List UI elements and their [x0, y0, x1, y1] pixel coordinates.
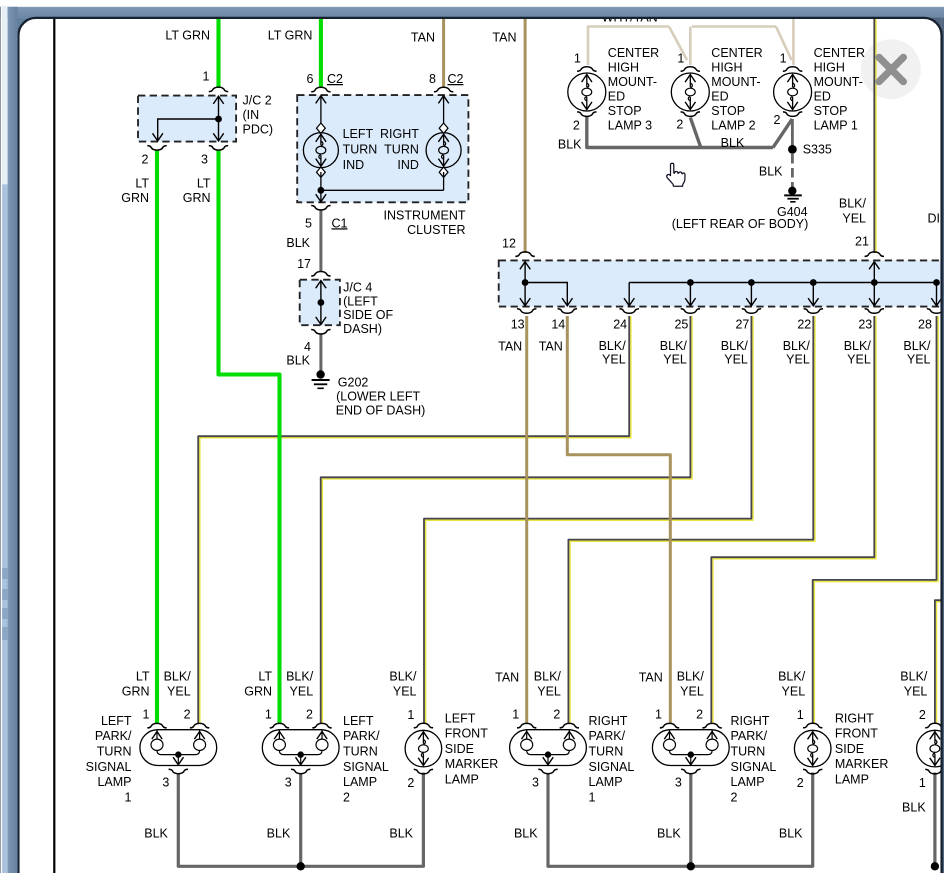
- svg-text:3: 3: [532, 776, 539, 790]
- svg-text:BLK: BLK: [779, 826, 803, 840]
- svg-text:21: 21: [855, 235, 869, 249]
- wire BLK from stop lamp 1 pin 2 to splice S335: [791, 119, 794, 149]
- svg-text:2: 2: [142, 153, 149, 167]
- wire WHT/TAN distribution to stop lamp 3: [588, 27, 669, 66]
- label G202 (LOWER LEFT END OF DASH): [336, 375, 426, 417]
- wire LT GRN from J/C 2 pin 3 down to left park/turn signal lamp 2 pin 1: [219, 151, 280, 725]
- svg-text:2: 2: [731, 790, 738, 804]
- label G404 (LEFT REAR OF BODY): [672, 205, 809, 231]
- svg-text:YEL: YEL: [393, 684, 417, 698]
- close button background circle: [861, 39, 921, 99]
- svg-text:BLK/: BLK/: [721, 339, 749, 353]
- J/C 4 pin 4 connector arc: [311, 330, 330, 335]
- J/C 2 internal branch to pin 2: [153, 119, 219, 141]
- svg-text:3: 3: [285, 776, 292, 790]
- svg-text:LAMP: LAMP: [589, 775, 623, 789]
- lamp: left park/turn signal lamp 1 body: [140, 730, 217, 766]
- lamp: far right lamp body: [917, 730, 944, 767]
- svg-text:LAMP 2: LAMP 2: [711, 119, 755, 133]
- labels of center high mounted stop lamp 1: [774, 46, 865, 133]
- svg-text:2: 2: [797, 776, 804, 790]
- svg-text:BLK/: BLK/: [660, 339, 688, 353]
- svg-text:BLK/: BLK/: [839, 197, 867, 211]
- app chrome: scrollbar white gutter: [1, 7, 2, 873]
- label wire color above lamp pin at x=424: [389, 669, 417, 698]
- connector internal line pin 21 down: [869, 262, 879, 306]
- label wire color above lamp pin at x=568.4: [534, 669, 562, 698]
- svg-text:2: 2: [184, 708, 191, 722]
- svg-text:BLK/: BLK/: [389, 669, 417, 683]
- junction dot left BLK bus: [297, 862, 305, 870]
- lamp: center high mounted stop lamp 2: [671, 73, 709, 111]
- svg-text:2: 2: [553, 708, 560, 722]
- svg-text:YEL: YEL: [904, 684, 928, 698]
- instrument cluster internal bus to pin 5: [316, 190, 444, 202]
- close button X icon: [879, 57, 903, 81]
- labels of center high mounted stop lamp 3: [573, 46, 659, 133]
- right park/turn signal lamp 2 pin 1 arc: [660, 723, 679, 728]
- mouse cursor: [667, 163, 685, 186]
- svg-text:YEL: YEL: [907, 352, 931, 366]
- svg-text:LEFT: LEFT: [445, 711, 476, 725]
- label LT GRN below J/C 2 pin 2: [121, 177, 149, 206]
- svg-text:2: 2: [573, 119, 580, 133]
- label pin 25 and wire color: [660, 318, 689, 367]
- label wire color above lamp pin at x=198.2: [164, 669, 192, 698]
- svg-text:SIGNAL: SIGNAL: [343, 760, 389, 774]
- left park/turn signal lamp 1 pin 3 arc: [169, 769, 188, 774]
- svg-text:IND: IND: [397, 158, 419, 172]
- svg-text:8: 8: [429, 72, 436, 86]
- lamp: left park/turn signal lamp 2 body: [262, 730, 339, 766]
- right park/turn signal lamp 2 internal filaments: [664, 730, 719, 765]
- svg-text:GRN: GRN: [183, 191, 211, 205]
- svg-text:PARK/: PARK/: [731, 729, 768, 743]
- connector internal distribution bus: [624, 283, 942, 306]
- svg-text:HIGH: HIGH: [608, 61, 639, 75]
- svg-text:YEL: YEL: [847, 352, 871, 366]
- wire WHT/TAN run to stop lamp 1: [692, 25, 776, 28]
- label J/C 4 (LEFT SIDE OF DASH): [343, 281, 393, 336]
- right front side marker lamp pin arcs: [803, 723, 822, 728]
- app chrome: right backdrop column: [942, 17, 944, 873]
- wire WHT/TAN from top to center high mounted stop lamp 1 pin 1: [792, 19, 795, 66]
- svg-text:TAN: TAN: [492, 31, 516, 45]
- svg-text:CENTER: CENTER: [711, 46, 762, 60]
- label wire color above lamp pin at x=279.5: [244, 669, 272, 698]
- app chrome: scrollbar dark left edge: [0, 7, 2, 873]
- svg-text:ED: ED: [711, 90, 728, 104]
- svg-text:24: 24: [613, 318, 627, 332]
- connector pin 12 connector arc: [515, 252, 534, 257]
- svg-text:MOUNT-: MOUNT-: [608, 75, 657, 89]
- svg-text:FRONT: FRONT: [445, 727, 488, 741]
- lamp: right park/turn signal lamp 1 body: [510, 730, 587, 766]
- svg-text:C1: C1: [332, 216, 348, 230]
- wire BLK diagonal from stop lamp 2 pin 2: [690, 118, 701, 148]
- app chrome: top white strip: [0, 0, 944, 7]
- svg-text:BLK/: BLK/: [534, 669, 562, 683]
- junction connector J/C 2 box (in PDC): [138, 96, 236, 142]
- svg-text:STOP: STOP: [711, 104, 745, 118]
- label J/C 2 (IN PDC): [243, 94, 274, 137]
- wire WHT/TAN stub at stop lamp 2: [689, 27, 692, 66]
- svg-text:C2: C2: [327, 72, 343, 86]
- stop lamp 2 pin 1 connector arc: [681, 67, 700, 72]
- svg-text:LAMP: LAMP: [343, 775, 377, 789]
- left park/turn signal lamp 1 pin 1 arc: [147, 723, 166, 728]
- svg-text:28: 28: [918, 318, 932, 332]
- svg-text:3: 3: [675, 776, 682, 790]
- instrument cluster pin 8 connector arc: [434, 87, 453, 92]
- svg-text:1: 1: [407, 708, 414, 722]
- svg-text:TAN: TAN: [639, 670, 663, 684]
- svg-text:SIDE OF: SIDE OF: [343, 308, 393, 322]
- wire LT GRN from J/C 2 pin 2 down to left park/turn signal lamp 1 pin 1: [155, 151, 159, 725]
- wire TAN connector pin 13 to right park/turn signal lamp 1 pin 1: [525, 316, 528, 724]
- left front side marker lamp name label: [445, 711, 498, 786]
- right front side marker lamp name label: [835, 711, 888, 786]
- svg-text:LAMP: LAMP: [445, 773, 479, 787]
- label RIGHT TURN IND: [380, 127, 419, 172]
- svg-text:YEL: YEL: [290, 684, 314, 698]
- svg-text:TURN: TURN: [589, 745, 624, 759]
- diagram left frame border line: [53, 19, 55, 874]
- right park/turn signal lamp 2 pin 2 arc: [702, 723, 721, 728]
- svg-text:5: 5: [305, 216, 312, 230]
- svg-text:4: 4: [304, 340, 311, 354]
- lamp: right park/turn signal lamp 2 body: [652, 730, 729, 766]
- right front side marker lamp pin number labels: [797, 708, 804, 790]
- label pin 23 and wire color: [844, 318, 873, 367]
- svg-text:ED: ED: [608, 90, 625, 104]
- wire TAN from top to connector pin 12: [524, 19, 527, 254]
- svg-text:CENTER: CENTER: [608, 46, 659, 60]
- svg-text:PDC): PDC): [243, 123, 274, 137]
- label wire color above lamp pin at x=157: [122, 669, 150, 698]
- svg-text:BLK/: BLK/: [903, 339, 931, 353]
- svg-text:MOUNT-: MOUNT-: [711, 75, 760, 89]
- stop lamp 1 pin 2 connector arc: [783, 112, 802, 117]
- stop lamp 3 pin 1 connector arc: [577, 67, 596, 72]
- svg-text:G202: G202: [338, 375, 369, 389]
- label INSTRUMENT CLUSTER: [384, 209, 466, 237]
- app chrome: top-left corner wedge: [17, 17, 36, 35]
- svg-text:IND: IND: [343, 158, 365, 172]
- svg-text:BLK/: BLK/: [286, 669, 314, 683]
- junction dot far right BLK wire: [931, 862, 939, 870]
- label wire color above lamp pin at x=812.7: [778, 669, 806, 698]
- svg-text:LT: LT: [136, 669, 150, 683]
- svg-text:TAN: TAN: [539, 340, 563, 354]
- connector internal line pin 12 to pin 13: [520, 262, 530, 306]
- svg-text:TURN: TURN: [97, 745, 132, 759]
- label pin 22 and wire color: [783, 318, 812, 367]
- label pin 6 and C2: [307, 72, 343, 86]
- connector internal branch to pin 14: [525, 283, 572, 306]
- svg-text:BLK/: BLK/: [844, 339, 872, 353]
- splice S335: [788, 145, 797, 154]
- label pin 8 and C2: [429, 72, 463, 86]
- svg-text:SIGNAL: SIGNAL: [731, 760, 777, 774]
- right park/turn signal lamp 1 internal filaments: [521, 730, 576, 765]
- svg-text:LEFT: LEFT: [343, 714, 374, 728]
- svg-text:1: 1: [655, 708, 662, 722]
- svg-text:STOP: STOP: [814, 104, 848, 118]
- label LEFT TURN IND: [343, 127, 378, 172]
- wire BLK/YEL from top to connector pin 21: [875, 19, 877, 254]
- svg-text:3: 3: [162, 776, 169, 790]
- wire BLK/YEL connector pin 28 to right front side marker lamp pin 1: [814, 316, 938, 724]
- svg-text:2: 2: [696, 708, 703, 722]
- svg-text:1: 1: [780, 52, 787, 66]
- svg-text:BLK: BLK: [267, 826, 291, 840]
- label pin 28 and wire color: [903, 318, 932, 367]
- svg-text:RIGHT: RIGHT: [835, 711, 874, 725]
- svg-text:LEFT: LEFT: [343, 127, 374, 141]
- app chrome: scrollbar light band top highlight: [2, 7, 8, 185]
- ground G404 symbol: [784, 187, 802, 202]
- wire WHT/TAN diagonal into stop lamp 1 pin 1: [776, 27, 792, 61]
- svg-text:BLK/: BLK/: [599, 339, 627, 353]
- label pin 27 and wire color: [721, 318, 750, 367]
- app chrome: scrollbar light band: [2, 7, 8, 873]
- svg-text:25: 25: [674, 318, 688, 332]
- right park/turn signal lamp 1 pin 1 arc: [517, 723, 536, 728]
- wire BLK bus of center stop lamps: [587, 116, 773, 148]
- svg-text:DASH): DASH): [343, 322, 382, 336]
- svg-text:LT GRN: LT GRN: [165, 29, 210, 43]
- wire BLK from left park/turn signal lamp 2 pin 3: [299, 774, 302, 866]
- left turn indicator lamp: [303, 96, 338, 191]
- left park/turn signal lamp 2 pin 2 arc: [312, 723, 331, 728]
- svg-text:2: 2: [919, 708, 926, 722]
- left park/turn signal lamp 1 pin number labels: [143, 708, 191, 790]
- svg-text:YEL: YEL: [680, 684, 704, 698]
- stop lamp 3 pin 2 connector arc: [577, 112, 596, 117]
- svg-text:(IN: (IN: [243, 108, 260, 122]
- svg-text:(LEFT: (LEFT: [343, 294, 378, 308]
- svg-text:LAMP 1: LAMP 1: [814, 119, 858, 133]
- lamp: center high mounted stop lamp 1: [774, 73, 812, 111]
- svg-text:YEL: YEL: [663, 352, 687, 366]
- label pin 5 and C1: [305, 216, 347, 230]
- stop lamp 2 pin 2 connector arc: [681, 112, 700, 117]
- label pin 24 and wire color: [599, 318, 628, 367]
- wire BLK/YEL connector pin 25 to left park/turn signal lamp 2 pin 2: [322, 316, 692, 724]
- svg-text:S335: S335: [803, 143, 832, 157]
- svg-text:2: 2: [676, 118, 683, 132]
- svg-text:YEL: YEL: [724, 352, 748, 366]
- svg-text:ED: ED: [814, 90, 831, 104]
- app chrome: top-right corner wedge: [924, 17, 942, 35]
- svg-text:END OF DASH): END OF DASH): [336, 404, 426, 418]
- svg-text:BLK: BLK: [286, 236, 310, 250]
- left park/turn signal lamp 2 pin 1 arc: [270, 723, 289, 728]
- wire BLK/YEL from right edge to far right lamp pin 2: [937, 602, 942, 724]
- connector bus junction dots: [687, 279, 940, 286]
- svg-text:LEFT: LEFT: [101, 714, 132, 728]
- svg-text:BLK: BLK: [286, 354, 310, 368]
- svg-text:BLK: BLK: [514, 826, 538, 840]
- svg-text:TAN: TAN: [498, 340, 522, 354]
- wire BLK from J/C 4 pin 4 to ground G202: [319, 335, 322, 372]
- svg-text:LAMP: LAMP: [835, 773, 869, 787]
- app chrome: scrollbar grip smudges: [2, 568, 8, 640]
- J/C 2 internal junction dot: [215, 116, 222, 123]
- svg-text:STOP: STOP: [608, 104, 642, 118]
- wire BLK ground bus of right lamps: [548, 773, 813, 867]
- svg-text:SIGNAL: SIGNAL: [589, 760, 635, 774]
- svg-text:GRN: GRN: [121, 191, 149, 205]
- svg-text:INSTRUMENT: INSTRUMENT: [384, 209, 466, 223]
- wire BLK/YEL connector pin 23 to right park/turn signal lamp 2 pin 2: [713, 316, 876, 724]
- svg-text:J/C 4: J/C 4: [343, 281, 372, 295]
- wire WHT/TAN diagonal into stop lamp 2 pin 1: [669, 27, 687, 61]
- svg-text:LT: LT: [258, 669, 272, 683]
- svg-text:1: 1: [677, 52, 684, 66]
- J/C 4 pin 17 connector arc: [311, 272, 330, 277]
- label wire color above lamp pin at x=934.9: [900, 669, 928, 698]
- svg-text:RIGHT: RIGHT: [731, 714, 770, 728]
- svg-text:BLK/: BLK/: [900, 669, 928, 683]
- svg-text:BLK: BLK: [558, 138, 582, 152]
- svg-text:LAMP 3: LAMP 3: [608, 119, 652, 133]
- svg-text:(LOWER LEFT: (LOWER LEFT: [336, 389, 420, 403]
- labels of center high mounted stop lamp 2: [676, 46, 762, 133]
- svg-text:PARK/: PARK/: [589, 729, 626, 743]
- label pin 14 and wire color: [539, 318, 566, 354]
- left front side marker lamp pin number labels: [407, 708, 414, 790]
- J/C 2 pin 3 connector arc: [209, 146, 228, 151]
- svg-text:BLK/: BLK/: [164, 669, 192, 683]
- svg-text:BLK: BLK: [657, 826, 681, 840]
- J/C 2 pin 1 connector arc: [209, 87, 228, 92]
- wire BLK from right park/turn signal lamp 2 pin 3: [689, 774, 692, 866]
- wire TAN connector pin 14 to right park/turn signal lamp 2 pin 1: [567, 316, 670, 724]
- svg-text:1: 1: [265, 708, 272, 722]
- svg-text:GRN: GRN: [244, 684, 272, 698]
- svg-text:J/C 2: J/C 2: [243, 94, 272, 108]
- svg-text:2: 2: [306, 708, 313, 722]
- svg-text:YEL: YEL: [782, 684, 806, 698]
- svg-text:TAN: TAN: [411, 31, 435, 45]
- right park/turn signal lamp 1 pin 3 arc: [538, 769, 557, 774]
- svg-text:BLK/: BLK/: [778, 669, 806, 683]
- svg-text:22: 22: [797, 318, 811, 332]
- svg-text:2: 2: [407, 776, 414, 790]
- svg-text:YEL: YEL: [842, 211, 866, 225]
- svg-text:YEL: YEL: [167, 684, 191, 698]
- lamp: left front side marker lamp body: [405, 730, 442, 767]
- svg-text:RIGHT: RIGHT: [589, 714, 628, 728]
- right park/turn signal lamp 1 pin 2 arc: [560, 723, 579, 728]
- right park/turn signal lamp 2 pin 3 arc: [681, 769, 700, 774]
- label pin 13 and wire color: [498, 318, 525, 354]
- svg-text:6: 6: [307, 72, 314, 86]
- svg-text:1: 1: [797, 708, 804, 722]
- svg-text:MOUNT-: MOUNT-: [814, 75, 863, 89]
- junction connector J/C 4 box (left side of dash): [300, 280, 340, 326]
- wire TAN from top to instrument cluster pin 8: [442, 19, 445, 89]
- label LT GRN below J/C 2 pin 3: [183, 177, 211, 206]
- svg-text:YEL: YEL: [537, 684, 561, 698]
- right park/turn signal lamp 1 pin number labels: [512, 708, 560, 790]
- svg-text:2: 2: [774, 113, 781, 127]
- svg-text:1: 1: [589, 790, 596, 804]
- svg-text:HIGH: HIGH: [814, 61, 845, 75]
- svg-text:BLK/: BLK/: [783, 339, 811, 353]
- left front side marker lamp pin arcs: [414, 723, 433, 728]
- svg-text:TURN: TURN: [731, 745, 766, 759]
- svg-text:YEL: YEL: [786, 352, 810, 366]
- left park/turn signal lamp 2 pin 3 arc: [291, 769, 310, 774]
- svg-text:23: 23: [858, 318, 872, 332]
- svg-text:1: 1: [143, 708, 150, 722]
- svg-text:BLK: BLK: [721, 136, 745, 150]
- svg-text:2: 2: [343, 790, 350, 804]
- instrument cluster pin 5 connector arc: [311, 206, 330, 211]
- right turn indicator lamp: [426, 96, 461, 191]
- J/C 2 internal bus line pin 1 to pin 3: [213, 96, 223, 141]
- svg-text:BLK: BLK: [144, 826, 168, 840]
- svg-text:FRONT: FRONT: [835, 727, 878, 741]
- right park/turn signal lamp 2 name label: [731, 714, 777, 805]
- svg-text:MARKER: MARKER: [445, 757, 498, 771]
- svg-text:MARKER: MARKER: [835, 757, 888, 771]
- far right lamp pin arcs: [925, 723, 944, 728]
- lamp: right front side marker lamp body: [794, 730, 831, 767]
- svg-text:17: 17: [297, 257, 311, 271]
- svg-text:1: 1: [574, 52, 581, 66]
- svg-text:PARK/: PARK/: [95, 729, 132, 743]
- svg-text:SIDE: SIDE: [835, 742, 864, 756]
- label wire color above lamp pin at x=320.7: [286, 669, 314, 698]
- svg-text:LAMP: LAMP: [731, 775, 765, 789]
- svg-text:TURN: TURN: [384, 142, 419, 156]
- svg-text:(LEFT REAR OF BODY): (LEFT REAR OF BODY): [672, 217, 809, 231]
- wire BLK from instrument cluster pin 5 to J/C 4 pin 17: [319, 211, 322, 273]
- svg-text:BLK/: BLK/: [677, 669, 705, 683]
- svg-text:1: 1: [512, 708, 519, 722]
- rear lamps harness connector box: [499, 260, 942, 306]
- svg-text:PARK/: PARK/: [343, 729, 380, 743]
- connector bottom pin arcs 13 14 24 25 27 22 23 28: [517, 309, 944, 314]
- svg-text:14: 14: [551, 318, 565, 332]
- wire BLK/YEL connector pin 27 to left front side marker lamp pin 1: [426, 316, 753, 724]
- svg-text:3: 3: [201, 153, 208, 167]
- svg-text:12: 12: [502, 236, 516, 250]
- svg-text:C2: C2: [448, 72, 464, 86]
- right park/turn signal lamp 1 name label: [589, 714, 635, 805]
- svg-text:TURN: TURN: [343, 745, 378, 759]
- far right lamp pin number labels: [919, 708, 926, 790]
- svg-text:LT: LT: [197, 177, 211, 191]
- svg-text:BLK: BLK: [389, 826, 413, 840]
- wire LT GRN from top to instrument cluster pin 6: [319, 19, 323, 89]
- svg-text:HIGH: HIGH: [711, 61, 742, 75]
- lamp: center high mounted stop lamp 3: [568, 73, 606, 111]
- svg-text:27: 27: [735, 318, 749, 332]
- connector pin 21 connector arc: [865, 252, 884, 257]
- svg-text:CENTER: CENTER: [814, 46, 865, 60]
- wire BLK/YEL connector pin 24 to left park/turn signal lamp 1 pin 2: [200, 316, 631, 724]
- svg-text:1: 1: [203, 70, 210, 84]
- instrument cluster internal junction dot: [318, 187, 325, 194]
- svg-text:1: 1: [919, 776, 926, 790]
- svg-text:LT GRN: LT GRN: [268, 29, 313, 43]
- svg-text:LAMP: LAMP: [97, 775, 131, 789]
